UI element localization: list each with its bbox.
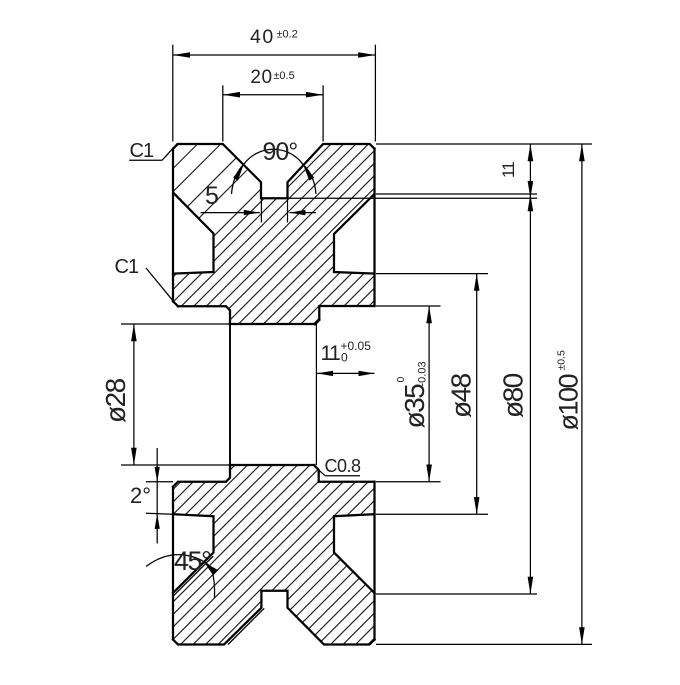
right notch bottom bbox=[334, 514, 375, 593]
o100 dim bbox=[376, 143, 592, 145]
11+0.05 arrows bbox=[317, 371, 333, 376]
svg-text:90°: 90° bbox=[263, 138, 298, 166]
right face full bbox=[373, 149, 375, 306]
o28 arrows bbox=[131, 324, 137, 341]
double-line details bottom left bbox=[173, 556, 264, 644]
40 dim bbox=[172, 45, 174, 142]
hatched material lower section bbox=[173, 465, 375, 644]
svg-text:5: 5 bbox=[205, 182, 219, 210]
o48 dim bbox=[376, 273, 488, 275]
40 dim arrows bbox=[173, 52, 190, 58]
11 top arrows bbox=[528, 144, 534, 161]
svg-text:ø100: ø100 bbox=[554, 374, 584, 430]
part outline lower bbox=[173, 465, 375, 645]
left recess bottom bbox=[173, 465, 230, 486]
bore top edge bbox=[230, 320, 319, 324]
left notch bbox=[173, 193, 214, 274]
svg-text:ø48: ø48 bbox=[446, 373, 477, 418]
dimension texts bbox=[100, 26, 584, 576]
svg-text:ø80: ø80 bbox=[498, 373, 529, 418]
thin crossing lines bbox=[230, 198, 316, 478]
C1 top leader bbox=[129, 159, 162, 161]
dimension and extension lines bbox=[121, 45, 592, 645]
left face full bbox=[172, 487, 174, 640]
svg-text:±0.5: ±0.5 bbox=[556, 350, 568, 371]
C1 left leader bbox=[146, 268, 173, 301]
left recess top bbox=[178, 306, 230, 324]
svg-text:0: 0 bbox=[395, 377, 407, 383]
o28 dim bbox=[121, 323, 230, 325]
svg-text:C1: C1 bbox=[115, 256, 139, 278]
11+0.05 dim bbox=[317, 372, 375, 374]
left notch bottom bbox=[173, 514, 214, 593]
svg-text:±0.2: ±0.2 bbox=[277, 29, 298, 41]
svg-text:45°: 45° bbox=[174, 546, 211, 576]
svg-text:C1: C1 bbox=[130, 140, 154, 162]
svg-text:20: 20 bbox=[250, 67, 272, 88]
arrowheads bbox=[131, 52, 585, 644]
bore dim extension across void bbox=[315, 324, 317, 465]
svg-text:11: 11 bbox=[499, 162, 518, 178]
svg-text:C0.8: C0.8 bbox=[325, 456, 362, 476]
o35 dim bbox=[376, 305, 441, 307]
2deg dim bbox=[146, 481, 173, 483]
left recess floor line across bore bbox=[229, 310, 231, 477]
svg-text:ø35: ø35 bbox=[399, 384, 430, 429]
90 arc + tails bbox=[244, 149, 303, 164]
o35 arrows bbox=[426, 306, 432, 323]
part outline upper bbox=[173, 144, 375, 324]
45deg arrow bbox=[205, 563, 219, 576]
right recess top bbox=[315, 306, 375, 324]
right face full bbox=[373, 482, 375, 640]
bottom profile with V-groove bbox=[173, 591, 375, 645]
right notch bbox=[334, 194, 375, 274]
groove wall extensions bbox=[260, 198, 262, 222]
right recess bottom bbox=[314, 465, 374, 481]
svg-text:±0.5: ±0.5 bbox=[273, 70, 294, 82]
C0.8 leader bbox=[318, 469, 326, 476]
o80 arrows bbox=[528, 194, 534, 211]
5 dim arrows bbox=[244, 210, 260, 215]
o100 arrows bbox=[579, 144, 585, 161]
left face full bbox=[172, 149, 174, 301]
2deg arrows bbox=[155, 467, 160, 482]
svg-text:2°: 2° bbox=[130, 483, 151, 508]
o48 arrows bbox=[474, 274, 480, 291]
o80 + 11 dims bbox=[376, 193, 537, 195]
left recess mouth chamfer bbox=[173, 301, 178, 306]
20 dim arrows bbox=[223, 92, 240, 98]
45deg leader bbox=[146, 555, 212, 568]
hatched material upper section bbox=[173, 144, 375, 324]
bore bottom edge bbox=[230, 464, 314, 466]
5 dim line bbox=[201, 212, 260, 214]
top profile with V-groove bbox=[173, 144, 375, 198]
svg-text:40: 40 bbox=[250, 26, 275, 48]
svg-text:11: 11 bbox=[321, 342, 341, 365]
sparse hatch lines top-left triangle bbox=[173, 144, 247, 218]
svg-text:0: 0 bbox=[341, 351, 348, 365]
svg-text:ø28: ø28 bbox=[100, 378, 131, 423]
90 arc arrows bbox=[233, 164, 244, 181]
svg-text:-0.03: -0.03 bbox=[417, 361, 429, 386]
20 dim bbox=[222, 85, 224, 141]
